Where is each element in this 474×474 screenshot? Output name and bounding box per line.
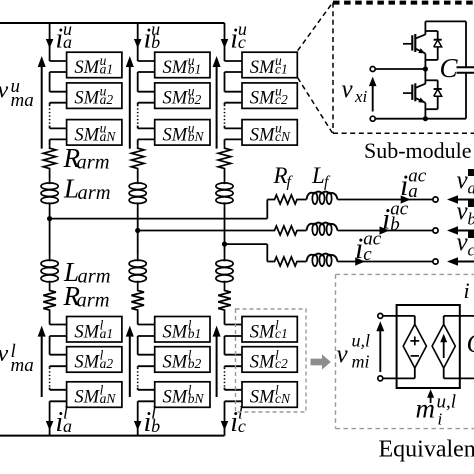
svg-text:c1: c1 (275, 326, 288, 341)
dependent voltage source (403, 324, 426, 368)
arrow v_xi (372, 83, 374, 112)
svg-text:i: i (55, 407, 63, 438)
svg-text:xi: xi (354, 87, 368, 106)
wire capacitor branch upper (465, 21, 467, 67)
svg-text:R: R (273, 163, 288, 188)
svg-text:a: a (408, 181, 418, 202)
svg-text:i: i (438, 410, 443, 429)
svg-text:a: a (63, 32, 72, 52)
equivalent box left edge (335, 274, 337, 428)
SM box SM^u_a1 (67, 52, 122, 78)
inductor L_f phase b (312, 224, 317, 236)
svg-text:SM: SM (250, 89, 276, 109)
wire R_f to L_f phase b (299, 230, 307, 232)
svg-text:i: i (355, 232, 363, 265)
svg-text:SM: SM (163, 322, 189, 342)
AC terminal node phase c (433, 259, 438, 264)
wire L_f to terminal phase a (338, 199, 433, 201)
svg-text:arm: arm (77, 290, 110, 312)
SM box SM^l_cN (242, 382, 297, 408)
current arrow i_u_b (134, 39, 142, 48)
wire phase c to AC filter (225, 244, 273, 261)
svg-text:aN: aN (100, 391, 117, 406)
inductor L_arm upper phase c (216, 178, 233, 209)
svg-text:i: i (400, 169, 408, 202)
svg-text:SM: SM (250, 125, 276, 145)
svg-text:b: b (151, 416, 160, 436)
svg-text:i: i (464, 278, 470, 303)
junction node phase c midpoint (222, 242, 227, 247)
wire equivalent lower left (383, 377, 415, 379)
sub-module terminal lower (370, 116, 375, 121)
svg-text:arm: arm (78, 266, 111, 288)
source arrow v_a (457, 199, 474, 201)
svg-text:C: C (467, 329, 474, 358)
wire R to L upper phase a (49, 171, 51, 178)
current arrow i_u_c (221, 39, 229, 48)
svg-text:bN: bN (188, 391, 205, 406)
IGBT T1 upper with diode D1 (403, 21, 442, 69)
SM box SM^l_c1 (242, 317, 297, 343)
svg-text:m: m (416, 393, 436, 423)
inductor L_f phase a (312, 193, 317, 205)
svg-text:ma: ma (11, 90, 34, 111)
wire upper SM chain phase c (225, 61, 243, 146)
SM box SM^u_cN (242, 120, 297, 146)
svg-text:arm: arm (77, 152, 110, 174)
resistor R_f phase c (273, 257, 300, 266)
svg-text:c: c (468, 241, 474, 260)
wire lower SM chain phase b (138, 313, 155, 436)
wire lower SM chain phase c (225, 313, 243, 436)
inductor L_arm upper phase b (129, 178, 146, 209)
dependent current source (432, 324, 455, 368)
wire upper leg phase a from DC bus (49, 23, 51, 61)
svg-text:SM: SM (74, 58, 100, 78)
svg-text:SM: SM (163, 388, 189, 408)
svg-text:i: i (55, 24, 63, 55)
resistor R_arm upper phase c (218, 146, 231, 171)
SM box SM^l_a1 (67, 317, 122, 343)
current arrow i_l_a (46, 421, 54, 430)
svg-text:SM: SM (74, 388, 100, 408)
svg-text:SM: SM (74, 89, 100, 109)
svg-text:v: v (337, 341, 349, 368)
svg-text:u,l: u,l (352, 331, 371, 351)
equivalent box bottom edge (336, 428, 474, 430)
current arrow i_u_a (46, 39, 54, 48)
junction node sub-module midpoint (423, 66, 428, 71)
arm voltage arrow lower phase c (216, 336, 218, 397)
inductor L_arm lower phase b (129, 254, 146, 288)
sub-module box bottom edge (333, 132, 474, 134)
wire upper SM chain phase a (50, 61, 67, 146)
current arrow i_l_c (221, 421, 229, 430)
inductor L_arm lower phase c (216, 254, 233, 288)
wire equivalent upper right (443, 316, 445, 324)
svg-text:cN: cN (275, 391, 291, 406)
resistor R_arm lower phase b (131, 288, 144, 313)
svg-text:SM: SM (163, 353, 189, 373)
arm voltage arrow upper phase c (216, 67, 218, 149)
SM box SM^u_b1 (155, 52, 210, 78)
svg-text:SM: SM (163, 89, 189, 109)
wire equivalent lower right (443, 368, 445, 378)
junction node phase a midpoint (47, 216, 52, 221)
equivalent terminal upper (378, 313, 383, 318)
wire sub-module lower rail (375, 118, 466, 120)
svg-text:b1: b1 (188, 326, 202, 341)
svg-text:arm: arm (78, 182, 111, 204)
svg-text:Sub-module: Sub-module (364, 138, 472, 163)
arm voltage arrow upper phase b (129, 67, 131, 149)
svg-text:v: v (0, 77, 9, 103)
svg-text:b: b (390, 214, 400, 235)
svg-text:L: L (311, 163, 325, 188)
svg-text:cN: cN (275, 129, 291, 144)
svg-text:aN: aN (100, 129, 117, 144)
wire R to L upper phase b (137, 171, 139, 178)
resistor R_arm upper phase a (43, 146, 56, 171)
resistor R_f phase b (273, 226, 300, 235)
svg-text:b: b (151, 32, 160, 52)
lower phase c highlight box (236, 309, 307, 412)
wire R_f to L_f phase a (299, 199, 307, 201)
gray callout arrow (311, 354, 331, 369)
svg-text:b: b (468, 210, 474, 229)
arm voltage arrow lower phase b (129, 336, 131, 397)
wire upper leg phase b from DC bus (137, 23, 139, 61)
wire L_f to terminal phase c (338, 261, 433, 263)
equivalent circuit rectangle (397, 305, 460, 388)
arm voltage arrow upper phase a (41, 67, 43, 149)
svg-text:i: i (382, 202, 390, 235)
wire phase b to AC filter (138, 230, 273, 232)
svg-text:SM: SM (163, 125, 189, 145)
current arrow i^ac_c (355, 257, 365, 265)
wire sub-module upper terminal (375, 68, 425, 70)
wire phase b midpoint (137, 209, 139, 255)
current arrow i^ac_b (380, 226, 390, 234)
wire upper SM chain phase b (138, 61, 155, 146)
SM box SM^l_b2 (155, 347, 210, 373)
resistor R_arm lower phase c (218, 288, 231, 313)
equivalent terminal lower (378, 376, 383, 381)
svg-text:c2: c2 (275, 356, 288, 371)
wire phase a to AC filter (50, 200, 273, 219)
SM box SM^l_b1 (155, 317, 210, 343)
svg-text:mi: mi (352, 352, 370, 372)
inductor L_f phase c (312, 254, 317, 266)
SM box SM^l_c2 (242, 347, 297, 373)
equivalent box top edge (336, 273, 474, 275)
svg-text:Equivalent circuit: Equivalent circuit (379, 436, 474, 462)
callout dashed line lower (298, 78, 333, 133)
resistor R_arm lower phase a (43, 288, 56, 313)
junction node sub-module bottom (423, 116, 428, 121)
sub-module terminal upper (370, 67, 375, 72)
capacitor C plates (457, 66, 474, 68)
current arrow i_l_b (134, 421, 142, 430)
sub-module box top edge (333, 1, 474, 5)
svg-text:bN: bN (188, 129, 205, 144)
svg-text:SM: SM (163, 58, 189, 78)
SM box SM^u_b2 (155, 83, 210, 109)
svg-text:SM: SM (250, 388, 276, 408)
arm voltage arrow lower phase a (41, 336, 43, 397)
wire phase c midpoint (224, 209, 226, 255)
SM box SM^u_c2 (242, 83, 297, 109)
svg-text:a1: a1 (100, 326, 114, 341)
svg-text:c1: c1 (275, 62, 288, 77)
resistor R_f phase a (273, 195, 300, 204)
svg-text:a2: a2 (100, 92, 114, 107)
SM box SM^u_aN (67, 120, 122, 146)
arrow m_i (430, 394, 432, 403)
inductor L_arm upper phase a (41, 178, 58, 209)
svg-text:b2: b2 (188, 356, 202, 371)
svg-text:a2: a2 (100, 356, 114, 371)
svg-text:a: a (63, 416, 72, 436)
wire phase a midpoint (49, 209, 51, 255)
SM box SM^l_bN (155, 382, 210, 408)
svg-text:v: v (0, 341, 9, 367)
wire sub-module top rail (425, 20, 466, 22)
SM box SM^u_bN (155, 120, 210, 146)
svg-text:a: a (468, 179, 474, 198)
source arrow v_b (457, 230, 474, 232)
svg-text:c: c (238, 32, 246, 52)
svg-text:SM: SM (250, 322, 276, 342)
wire equivalent upper left (383, 315, 415, 317)
svg-text:C: C (440, 53, 459, 83)
svg-text:SM: SM (74, 353, 100, 373)
junction node phase b midpoint (135, 228, 140, 233)
SM box SM^u_a2 (67, 83, 122, 109)
inductor L_arm lower phase a (41, 254, 58, 288)
arrow v_mi (379, 326, 381, 372)
wire lower SM chain phase a (50, 313, 67, 436)
svg-text:ma: ma (11, 355, 34, 376)
wire R_f to L_f phase c (299, 261, 307, 263)
svg-text:c: c (238, 416, 246, 436)
wire R to L upper phase c (224, 171, 226, 178)
AC terminal node phase b (433, 228, 438, 233)
svg-text:b2: b2 (188, 92, 202, 107)
svg-text:a1: a1 (100, 62, 114, 77)
wire L_f to terminal phase b (338, 230, 433, 232)
svg-text:SM: SM (250, 353, 276, 373)
SM box SM^u_c1 (242, 52, 297, 78)
svg-text:c: c (363, 244, 372, 265)
callout dashed line upper (298, 3, 333, 50)
AC terminal node phase a (433, 197, 438, 202)
svg-text:SM: SM (250, 58, 276, 78)
svg-text:v: v (342, 76, 354, 103)
IGBT T2 lower with diode D2 (403, 71, 442, 119)
wire capacitor branch lower (465, 73, 467, 119)
wire upper leg phase c from DC bus (224, 23, 226, 61)
wire top DC bus (0, 22, 225, 24)
source arrow v_c (457, 261, 474, 263)
svg-text:SM: SM (74, 322, 100, 342)
sub-module box left edge (332, 3, 334, 134)
current arrow i^ac_a (401, 195, 411, 203)
wire bottom DC bus (0, 435, 225, 437)
svg-text:c2: c2 (275, 92, 288, 107)
SM box SM^l_a2 (67, 347, 122, 373)
svg-text:b1: b1 (188, 62, 202, 77)
SM box SM^l_aN (67, 382, 122, 408)
resistor R_arm upper phase b (131, 146, 144, 171)
